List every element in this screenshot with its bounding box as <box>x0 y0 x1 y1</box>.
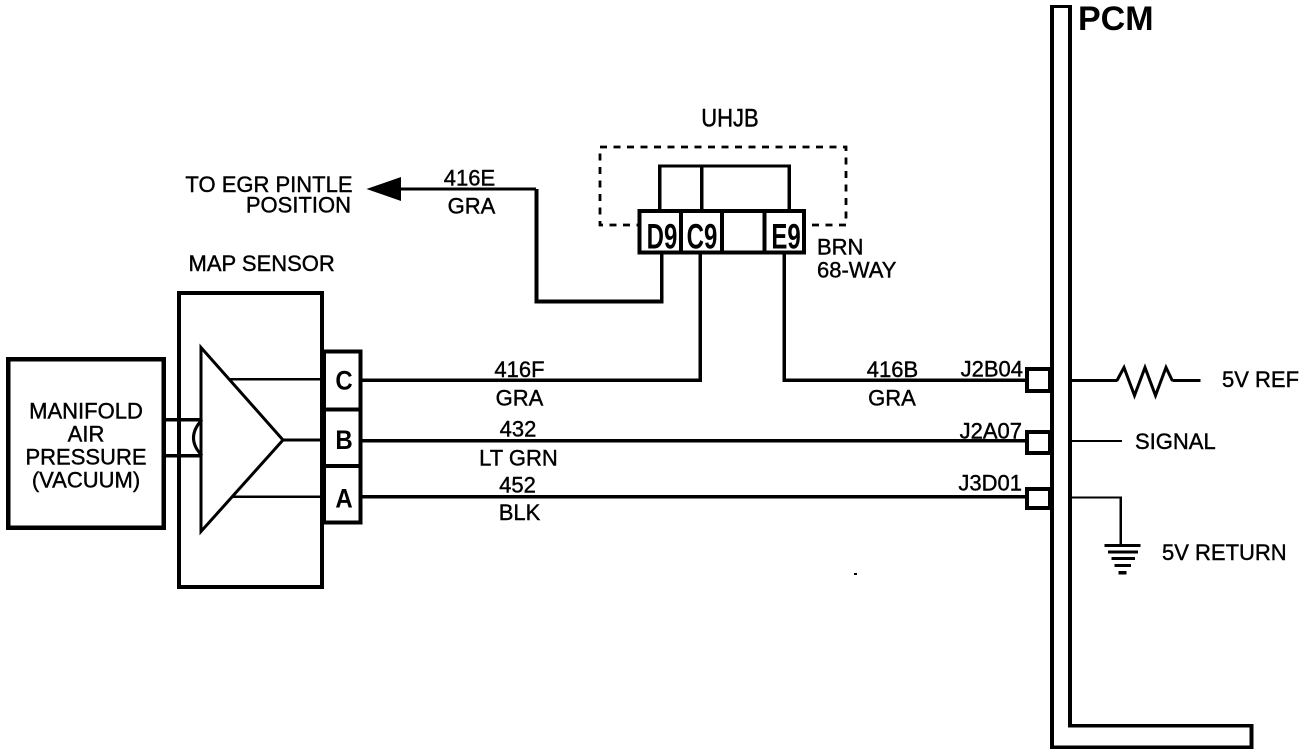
svg-text:B: B <box>335 426 352 455</box>
svg-text:432: 432 <box>500 417 537 442</box>
svg-text:MANIFOLD: MANIFOLD <box>29 399 143 424</box>
svg-text:J2A07: J2A07 <box>960 418 1022 443</box>
svg-text:5V REF: 5V REF <box>1222 367 1299 392</box>
svg-text:D9: D9 <box>647 218 678 256</box>
svg-text:POSITION: POSITION <box>246 193 351 218</box>
svg-text:BRN: BRN <box>817 235 863 260</box>
svg-text:AIR: AIR <box>68 422 105 447</box>
svg-text:GRA: GRA <box>496 386 544 411</box>
svg-text:416E: 416E <box>444 166 495 191</box>
svg-text:SIGNAL: SIGNAL <box>1135 429 1216 454</box>
svg-text:5V RETURN: 5V RETURN <box>1162 540 1287 565</box>
svg-text:GRA: GRA <box>448 194 496 219</box>
svg-text:PRESSURE: PRESSURE <box>25 445 146 470</box>
svg-text:C: C <box>335 366 352 395</box>
svg-text:J2B04: J2B04 <box>961 356 1023 381</box>
svg-text:416B: 416B <box>867 357 918 382</box>
svg-text:C9: C9 <box>687 218 718 256</box>
svg-text:BLK: BLK <box>499 500 541 525</box>
svg-text:68-WAY: 68-WAY <box>817 258 897 283</box>
svg-text:E9: E9 <box>771 218 800 256</box>
svg-text:GRA: GRA <box>868 386 916 411</box>
svg-text:(VACUUM): (VACUUM) <box>32 468 140 493</box>
svg-text:MAP SENSOR: MAP SENSOR <box>189 251 335 276</box>
svg-text:UHJB: UHJB <box>701 105 758 133</box>
svg-text:A: A <box>335 484 352 513</box>
svg-text:452: 452 <box>499 473 536 498</box>
svg-text:LT GRN: LT GRN <box>479 446 558 471</box>
svg-text:416F: 416F <box>494 357 544 382</box>
svg-text:PCM: PCM <box>1078 0 1154 38</box>
svg-text:J3D01: J3D01 <box>958 471 1022 496</box>
